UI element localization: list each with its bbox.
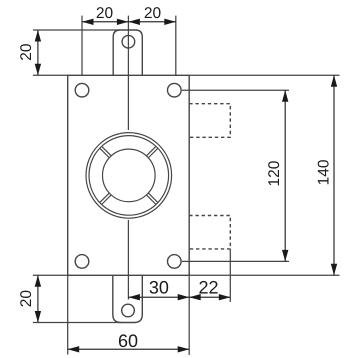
arrow 120 up xyxy=(282,90,288,102)
corner hole bottom-right xyxy=(168,255,182,269)
svg-text:60: 60 xyxy=(118,331,138,351)
corner hole top-right xyxy=(168,83,182,97)
extension line hole-right top dim xyxy=(175,16,177,76)
corner hole top-left xyxy=(75,83,89,97)
arrow 20 upper-left up xyxy=(35,30,41,42)
center line lower segment xyxy=(127,220,129,300)
arrow 20 upper-left down xyxy=(35,64,41,76)
arrow 20 top left-right xyxy=(117,19,128,25)
extension line tab bottom xyxy=(33,322,121,324)
dim line 20 upper-left vertical xyxy=(37,30,39,75)
svg-text:120: 120 xyxy=(266,160,283,186)
dim line 30/22 bottom xyxy=(128,296,230,298)
arrow 20 top right-right xyxy=(164,19,176,25)
center line upper segment xyxy=(127,16,129,130)
extension line hole-left top dim xyxy=(81,16,83,76)
arrow 30 right xyxy=(178,294,190,300)
extension line bottom hole row right xyxy=(182,260,289,262)
extension line plate right edge down xyxy=(188,275,190,355)
arrow 60 left xyxy=(68,346,80,352)
dim line 20 lower-left vertical xyxy=(37,275,39,322)
hidden connector box upper (dashed) xyxy=(189,104,230,138)
arrow 22 right xyxy=(219,294,231,300)
svg-text:20: 20 xyxy=(18,43,35,61)
bottom tab hole xyxy=(122,304,135,317)
extension line box right down xyxy=(229,249,231,302)
vent spokes xyxy=(100,146,158,204)
dim line 60 bottom xyxy=(68,348,190,350)
extension line plate bottom left xyxy=(33,274,68,276)
svg-text:20: 20 xyxy=(96,5,114,22)
top mounting tab xyxy=(113,30,142,75)
arrow 140 down xyxy=(331,264,337,276)
arrow 20 top right-left xyxy=(128,19,140,25)
dim line 120 right xyxy=(284,90,286,261)
arrow 22 left xyxy=(189,294,201,300)
corner hole bottom-left xyxy=(75,255,89,269)
arrow 120 down xyxy=(282,250,288,262)
arrow 20 top left-left xyxy=(82,19,94,25)
extension line top hole row right xyxy=(182,89,289,91)
arrow 30 left xyxy=(128,294,140,300)
vent outer circle xyxy=(86,133,172,219)
arrow 20 lower-left up xyxy=(35,275,41,287)
vent inner circle xyxy=(103,149,156,202)
vent ring circle xyxy=(89,136,169,216)
svg-text:20: 20 xyxy=(144,5,162,22)
top tab hole xyxy=(122,35,135,48)
hidden connector box lower (dashed) xyxy=(189,216,230,249)
extension line plate top left xyxy=(33,74,68,76)
svg-text:22: 22 xyxy=(198,277,218,297)
dim line 20/20 top xyxy=(82,21,176,23)
extension line plate left edge down xyxy=(67,275,69,354)
bottom mounting tab xyxy=(113,275,143,322)
arrow 20 lower-left down xyxy=(35,311,41,323)
arrow 140 up xyxy=(331,75,337,87)
svg-text:140: 140 xyxy=(315,159,332,185)
extension line tab top left xyxy=(33,29,120,31)
arrow 60 right xyxy=(178,346,190,352)
dim line 140 right xyxy=(333,75,335,275)
dimension lines xyxy=(38,22,334,350)
extension line plate bottom right xyxy=(189,274,339,276)
mounting plate outline xyxy=(68,75,190,275)
svg-text:30: 30 xyxy=(149,277,169,297)
extension line plate top right xyxy=(189,74,339,76)
svg-text:20: 20 xyxy=(18,290,35,308)
